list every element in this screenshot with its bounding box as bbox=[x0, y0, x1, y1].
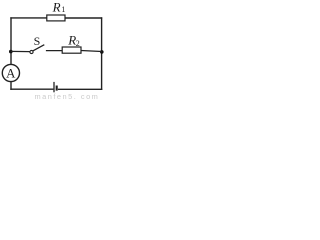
battery short plate bbox=[56, 86, 58, 91]
wire left vertical lower bbox=[10, 82, 12, 90]
resistor R1 bbox=[47, 15, 65, 21]
resistor R2 bbox=[62, 47, 81, 53]
label R1 bbox=[52, 0, 66, 14]
wire top-left segment bbox=[10, 17, 47, 19]
switch S bbox=[30, 45, 44, 54]
svg-text:S: S bbox=[34, 34, 41, 48]
svg-text:A: A bbox=[6, 66, 16, 80]
wire bottom-left segment bbox=[10, 88, 53, 90]
svg-text:2: 2 bbox=[76, 39, 80, 48]
svg-text:R: R bbox=[52, 0, 61, 14]
svg-text:1: 1 bbox=[61, 5, 65, 14]
wire top-right segment bbox=[65, 17, 102, 19]
node junction right bbox=[100, 50, 104, 54]
wire R2 to right rail bbox=[81, 51, 102, 52]
battery long plate bbox=[53, 82, 55, 92]
wire switch to R2 bbox=[46, 50, 63, 52]
svg-text:manfen5. com: manfen5. com bbox=[35, 92, 100, 99]
wire bottom-right segment bbox=[58, 88, 102, 90]
ammeter A bbox=[2, 64, 19, 81]
wire right vertical bbox=[101, 17, 103, 90]
label R2 bbox=[67, 33, 80, 48]
wire left vertical upper bbox=[10, 17, 12, 64]
wire switch feed bbox=[11, 50, 30, 52]
node junction left bbox=[9, 50, 13, 54]
